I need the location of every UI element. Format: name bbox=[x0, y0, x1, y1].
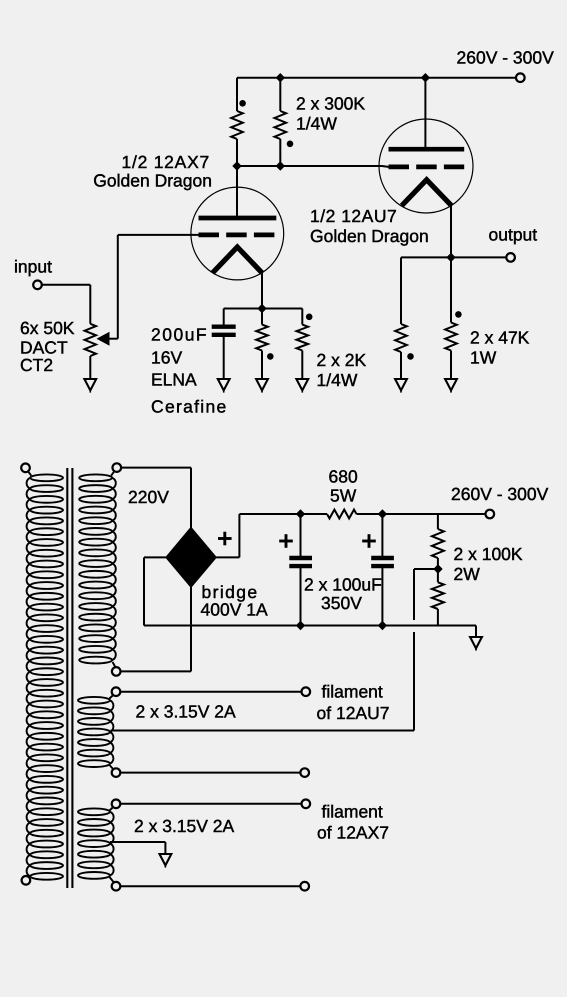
U2 grid (dashed) bbox=[389, 165, 465, 170]
pair bullet on right 300K bbox=[287, 141, 294, 148]
wire: pot bottom lead bbox=[89, 356, 91, 379]
terminal: filament 12AU7 bottom bbox=[300, 768, 309, 777]
svg-text:2 x 100uF: 2 x 100uF bbox=[304, 575, 382, 595]
svg-text:200uF: 200uF bbox=[151, 325, 208, 345]
svg-text:400V 1A: 400V 1A bbox=[201, 600, 268, 620]
pair bullet 2K right bbox=[306, 314, 313, 321]
junction rail / C2 bbox=[296, 509, 305, 518]
svg-text:1/2 12AX7: 1/2 12AX7 bbox=[122, 152, 210, 172]
ground for filament centre tap bbox=[160, 854, 172, 865]
triode U2 1/2 12AU7: envelope bbox=[379, 119, 473, 213]
wire: U1 cathode lead bbox=[261, 270, 263, 309]
ground for supply bbox=[470, 637, 482, 648]
terminal: input bbox=[33, 281, 42, 290]
junction rail / C3 bbox=[378, 509, 387, 518]
terminal: output bbox=[506, 253, 515, 262]
pair bullet 47K right bbox=[455, 311, 462, 318]
svg-text:2 x 3.15V 2A: 2 x 3.15V 2A bbox=[136, 702, 237, 722]
svg-text:260V - 300V: 260V - 300V bbox=[451, 484, 549, 504]
terminal: 260V-300V (supply) bbox=[486, 510, 495, 519]
svg-text:filament: filament bbox=[322, 682, 383, 702]
terminal: filament 12AX7 bottom bbox=[300, 882, 309, 891]
U2 cathode bbox=[402, 180, 452, 206]
terminal: filament 12AX7 top bbox=[302, 800, 311, 809]
wire: top rail right of 680 bbox=[357, 513, 486, 515]
wire: filament 12AX7 top bbox=[120, 803, 301, 805]
wire: 12AX7 plate node to 12AU7 grid bbox=[237, 165, 382, 167]
svg-text:16V: 16V bbox=[151, 348, 182, 368]
svg-text:2 x 2K: 2 x 2K bbox=[317, 350, 367, 370]
wire: HV secondary to bridge AC bbox=[120, 468, 191, 672]
resistor 300K left (plate load a) bbox=[231, 111, 243, 139]
svg-text:1/4W: 1/4W bbox=[296, 114, 337, 134]
svg-text:350V: 350V bbox=[321, 593, 362, 613]
svg-text:6x 50K: 6x 50K bbox=[20, 318, 75, 338]
capacitor C3 100uF bbox=[381, 514, 383, 626]
svg-text:220V: 220V bbox=[128, 487, 169, 507]
potentiometer 6x 50K DACT CT2 bbox=[85, 324, 96, 356]
U1 plate bbox=[199, 216, 277, 221]
plus mark C3 bbox=[362, 540, 376, 543]
svg-text:2 x 300K: 2 x 300K bbox=[296, 94, 365, 114]
resistor 47K left bbox=[395, 324, 407, 352]
wire: bottom rail bbox=[144, 626, 476, 638]
U1 plate lead bbox=[236, 166, 238, 216]
svg-text:1/2 12AU7: 1/2 12AU7 bbox=[310, 206, 397, 226]
ground for C1 bbox=[218, 379, 230, 390]
U2 plate bbox=[389, 147, 465, 152]
pair bullet 2K left bbox=[267, 353, 274, 360]
wire: bridge - to bottom rail bbox=[144, 557, 166, 625]
triode U1 1/2 12AX7: envelope bbox=[191, 187, 284, 280]
wire: output node bbox=[401, 257, 506, 324]
plus mark C2 bbox=[279, 540, 293, 543]
transformer core bbox=[67, 468, 72, 888]
junction B+ rail / right 300K bbox=[276, 73, 285, 82]
wire: filament 12AU7 top bbox=[120, 691, 301, 693]
junction cathode node bbox=[257, 304, 266, 313]
ground for 2K right bbox=[296, 379, 308, 390]
svg-text:5W: 5W bbox=[330, 486, 357, 506]
junction B+ rail / 12AU7 plate bbox=[421, 73, 430, 82]
transformer filament winding 12AU7 bbox=[112, 687, 121, 696]
svg-text:CT2: CT2 bbox=[20, 355, 53, 375]
bridge rectifier 400V 1A bbox=[166, 527, 217, 587]
pair bullet 47K left bbox=[407, 353, 414, 360]
junction bottom rail / C2 bbox=[296, 621, 305, 630]
U1 cathode bbox=[213, 247, 263, 273]
capacitor C1 200uF 16V ELNA Cerafine bbox=[223, 309, 225, 380]
svg-text:Golden Dragon: Golden Dragon bbox=[93, 171, 212, 191]
wire: B+ rail top bbox=[237, 78, 516, 111]
wire: filament 12AX7 centre tap to ground bbox=[110, 842, 165, 854]
svg-text:of 12AX7: of 12AX7 bbox=[317, 823, 389, 843]
wire: U2 grid stub bbox=[382, 165, 389, 168]
transformer filament winding 12AX7 bbox=[112, 800, 121, 809]
junction plate node right bbox=[276, 161, 285, 170]
wire: input to pot bbox=[42, 285, 91, 324]
svg-text:ELNA: ELNA bbox=[151, 370, 197, 390]
junction plate node left bbox=[232, 161, 241, 170]
svg-text:output: output bbox=[489, 225, 538, 245]
resistor 2K right bbox=[301, 309, 303, 325]
resistor 100K lower bbox=[432, 582, 444, 609]
svg-text:2W: 2W bbox=[454, 564, 481, 584]
wire: bridge + to top rail bbox=[216, 514, 327, 557]
svg-text:1/4W: 1/4W bbox=[317, 370, 358, 390]
resistor 100K upper bbox=[437, 514, 439, 529]
wire: 12AX7 cathode node bbox=[224, 308, 303, 310]
wire: divider tap to heater centre tap (crosses rail, no connect) bbox=[111, 569, 439, 731]
terminal: filament 12AU7 top bbox=[302, 687, 311, 696]
resistor 680 5W bbox=[327, 510, 357, 519]
transformer primary winding 220V bbox=[21, 464, 30, 473]
resistor 47K right bbox=[450, 257, 452, 322]
wire: 300K left bottom lead bbox=[236, 139, 238, 166]
ground for 2K left bbox=[256, 379, 268, 390]
svg-text:260V - 300V: 260V - 300V bbox=[457, 48, 555, 68]
wire: filament 12AU7 bottom bbox=[120, 772, 300, 774]
svg-text:2 x 47K: 2 x 47K bbox=[470, 328, 530, 348]
plus mark at bridge bbox=[218, 537, 232, 540]
svg-text:filament: filament bbox=[322, 802, 383, 822]
svg-text:1W: 1W bbox=[470, 348, 497, 368]
svg-text:2 x 100K: 2 x 100K bbox=[454, 544, 523, 564]
ground for 47K left bbox=[395, 379, 407, 390]
wire: filament 12AX7 bottom bbox=[120, 885, 300, 887]
ground for pot bbox=[84, 379, 96, 390]
resistor 2K left bbox=[261, 309, 263, 325]
U1 grid (dashed) bbox=[199, 233, 276, 238]
wire: grid lead from pot wiper bbox=[118, 234, 199, 236]
svg-text:2 x 3.15V 2A: 2 x 3.15V 2A bbox=[134, 816, 235, 836]
wire: U2 cathode lead bbox=[450, 203, 452, 257]
svg-text:of 12AU7: of 12AU7 bbox=[317, 703, 390, 723]
ground for 47K right bbox=[445, 379, 457, 390]
pair bullet on left 300K bbox=[239, 100, 246, 107]
svg-text:Golden Dragon: Golden Dragon bbox=[310, 226, 429, 246]
svg-text:input: input bbox=[14, 257, 52, 277]
junction output node bbox=[446, 253, 455, 262]
junction bottom rail / C3 bbox=[378, 621, 387, 630]
transformer HV secondary winding bbox=[113, 463, 122, 472]
resistor 300K right (plate load b) bbox=[279, 78, 281, 111]
pot wiper arrow bbox=[107, 235, 118, 339]
terminal: B+ 260V-300V (top) bbox=[516, 73, 525, 82]
U2 plate lead bbox=[424, 78, 426, 147]
svg-text:Cerafine: Cerafine bbox=[151, 397, 228, 417]
capacitor C2 100uF bbox=[300, 514, 302, 626]
svg-text:680: 680 bbox=[329, 467, 358, 487]
junction divider tap bbox=[433, 564, 442, 573]
